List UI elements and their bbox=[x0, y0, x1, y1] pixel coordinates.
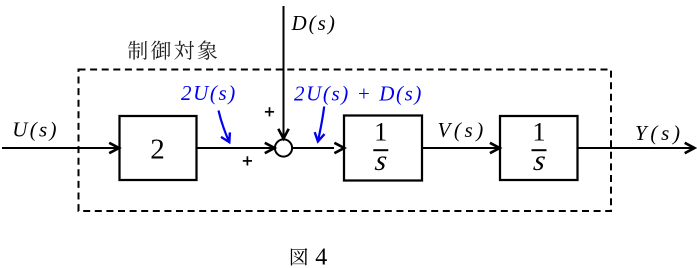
svg-text:1: 1 bbox=[374, 117, 387, 147]
svg-text:2: 2 bbox=[150, 133, 165, 165]
svg-text:D(s): D(s) bbox=[291, 11, 337, 35]
svg-text:4: 4 bbox=[315, 244, 327, 268]
svg-text:2U(s) + D(s): 2U(s) + D(s) bbox=[294, 82, 423, 106]
svg-text:2U(s): 2U(s) bbox=[181, 81, 237, 105]
svg-text:1: 1 bbox=[532, 117, 545, 147]
svg-text:V(s): V(s) bbox=[438, 118, 487, 142]
svg-text:U(s): U(s) bbox=[12, 118, 59, 142]
svg-text:Y(s): Y(s) bbox=[635, 121, 684, 145]
